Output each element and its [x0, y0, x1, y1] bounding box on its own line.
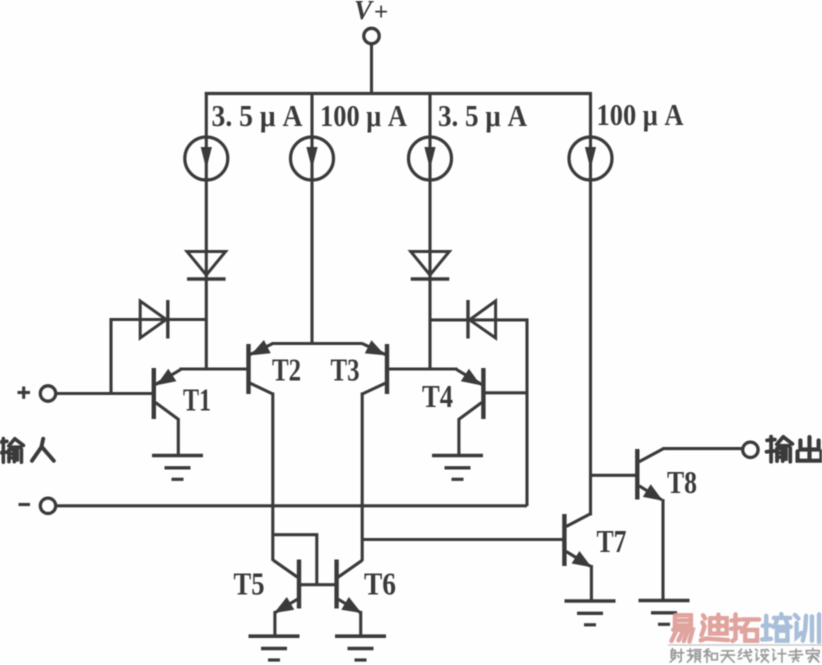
- current source I3 3.5uA: [409, 137, 452, 180]
- svg-text:T5: T5: [234, 566, 265, 602]
- transistor T2 (PNP): [249, 340, 273, 394]
- ground (T8): [639, 601, 690, 625]
- svg-text:3. 5 μ A: 3. 5 μ A: [438, 98, 528, 133]
- watermark divider line: [668, 644, 822, 646]
- current source I4 100uA: [569, 137, 612, 180]
- wire T2 collector to T5 collector: [271, 393, 274, 562]
- wire branch 3 (from bus through I3, D2 to T4 emitter node): [428, 92, 431, 369]
- label T6: [364, 566, 396, 602]
- wire T4 base to its column: [485, 391, 527, 394]
- svg-text:T6: T6: [364, 566, 396, 602]
- wire D3 row (T1 base to branch 1): [111, 318, 206, 321]
- diode D2: [411, 252, 450, 280]
- current source I2 100uA: [291, 137, 334, 180]
- svg-text:+: +: [374, 0, 388, 26]
- svg-text:100 μ A: 100 μ A: [320, 98, 408, 133]
- label T5: [234, 566, 265, 602]
- watermark slogan text (shepin he tianxian sheji zhuanjia): [670, 649, 819, 663]
- ground (T1): [152, 456, 203, 480]
- ground (T6): [335, 636, 386, 660]
- wire branch 4 to T8 base: [591, 474, 636, 477]
- svg-text:100 μ A: 100 μ A: [597, 97, 685, 132]
- label T1: [183, 382, 211, 418]
- label 3.5uA (I1): [212, 98, 304, 133]
- wire T5 collector-base bracket: [273, 535, 316, 585]
- svg-text:V: V: [354, 0, 374, 25]
- input - terminal: [19, 498, 56, 513]
- wire T4 base column (D4 to - input row): [525, 318, 528, 506]
- wire branch 4 (from bus through I4 to T7 collector): [589, 92, 592, 516]
- label 3.5uA (I3): [438, 98, 528, 133]
- power terminal V+: [354, 0, 388, 44]
- wire - input row to T4 base column: [56, 504, 527, 507]
- transistor T6 (NPN): [337, 560, 363, 638]
- label 100uA (I2): [320, 98, 408, 133]
- svg-text:T1: T1: [183, 382, 211, 418]
- label T7: [597, 523, 627, 559]
- wire V+ to top bus: [370, 44, 373, 94]
- svg-text:T7: T7: [597, 523, 627, 559]
- wire T3 collector to T6 collector: [361, 393, 364, 562]
- ground (T4): [432, 456, 483, 480]
- label T2: [272, 352, 301, 388]
- wire T8 collector to output terminal: [663, 447, 743, 450]
- wire T2/T3 emitter bracket: [272, 342, 363, 345]
- label T8: [667, 464, 697, 500]
- diode D3: [140, 300, 168, 339]
- wire T5 base to T6 base: [299, 583, 337, 586]
- wire branch 1 (from bus through I1, D1 to T1 emitter node): [205, 92, 208, 369]
- transistor T5 (NPN diode-connected): [273, 560, 299, 638]
- label 100uA (I4): [597, 97, 685, 132]
- ground (T5): [249, 636, 300, 660]
- svg-text:T8: T8: [667, 464, 697, 500]
- current source I1 3.5uA: [185, 137, 228, 180]
- wire branch 2 (from bus through I2 to T2/T3 emitters): [310, 92, 313, 345]
- svg-text:T2: T2: [272, 352, 301, 388]
- transistor T7 (NPN): [564, 514, 591, 602]
- wire T3 base row to T4 emitter (through branch 3): [389, 367, 458, 370]
- label T4: [422, 378, 453, 414]
- diode D1: [187, 252, 226, 280]
- diode D4: [468, 300, 496, 339]
- svg-text:T3: T3: [331, 352, 360, 388]
- transistor T3 (PNP): [362, 340, 387, 394]
- wire node A up to diode D3: [109, 318, 112, 394]
- wire T6 collector node to T7 base: [362, 538, 562, 541]
- svg-text:3. 5 μ A: 3. 5 μ A: [212, 98, 304, 133]
- transistor T1 (PNP): [154, 368, 181, 456]
- output terminal: [743, 442, 758, 457]
- top supply bus: [205, 92, 591, 95]
- svg-text:T4: T4: [422, 378, 453, 414]
- label output (shuchu): [767, 437, 822, 462]
- transistor T8 (NPN): [637, 449, 663, 602]
- label T3: [331, 352, 360, 388]
- wire T1 emitter row to T2 base: [180, 367, 249, 370]
- watermark logo text (yi di tuo pei xun): [671, 614, 819, 642]
- ground (T7): [565, 601, 616, 625]
- transistor T4 (PNP): [457, 368, 484, 456]
- wire D4 row (branch 3 to T4 base column): [430, 318, 527, 321]
- input + terminal: [18, 386, 56, 401]
- wire + input to T1 base: [56, 392, 152, 395]
- label input (shuru): [0, 439, 54, 463]
